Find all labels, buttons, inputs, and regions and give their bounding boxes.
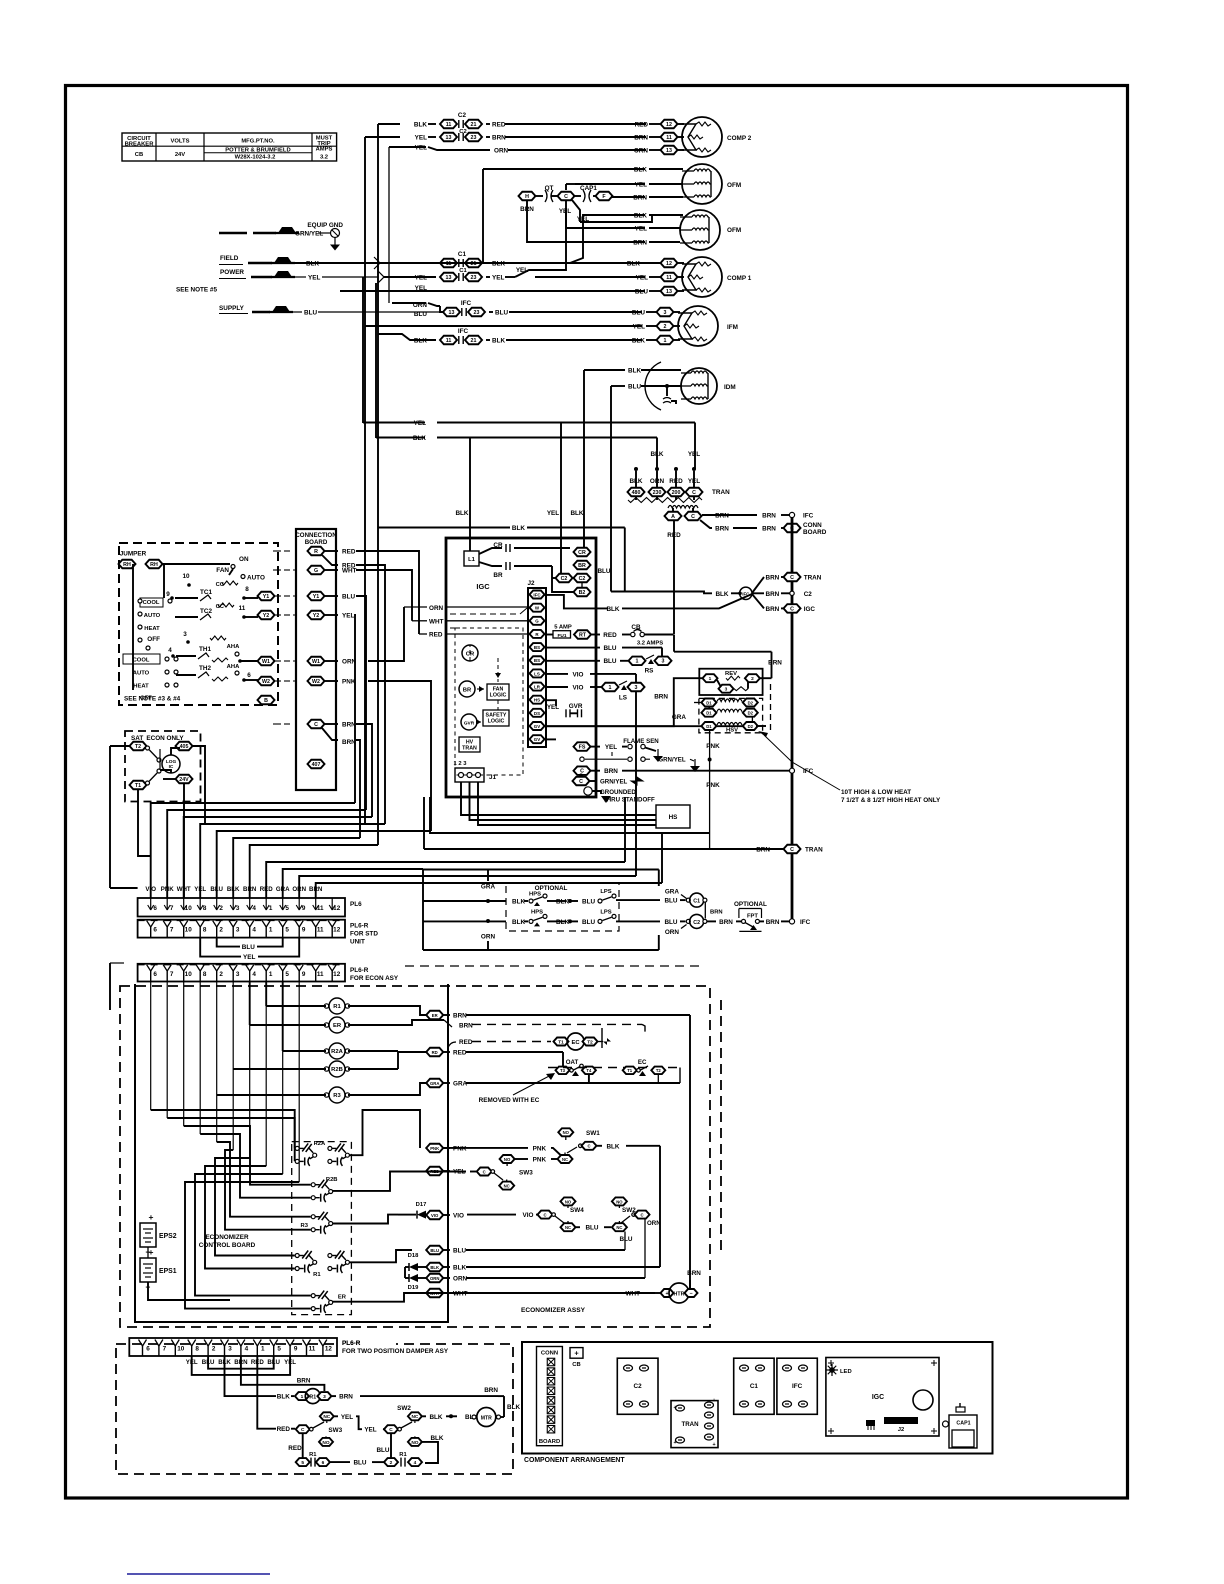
svg-text:D17: D17 bbox=[416, 1202, 427, 1208]
svg-text:C1: C1 bbox=[458, 251, 467, 258]
svg-text:LPS: LPS bbox=[600, 889, 611, 895]
svg-text:4: 4 bbox=[252, 905, 256, 912]
svg-text:+: + bbox=[712, 1398, 715, 1404]
svg-text:ER: ER bbox=[333, 1023, 342, 1029]
svg-text:RED: RED bbox=[277, 1426, 291, 1433]
svg-text:POTTER & BRUMFIELD: POTTER & BRUMFIELD bbox=[225, 148, 290, 154]
svg-text:LS: LS bbox=[534, 671, 540, 676]
svg-text:BRN: BRN bbox=[633, 240, 647, 247]
svg-text:PL6-R: PL6-R bbox=[350, 923, 369, 930]
svg-text:11: 11 bbox=[666, 135, 672, 141]
svg-text:R2B: R2B bbox=[331, 1067, 343, 1073]
svg-text:1 2 3: 1 2 3 bbox=[454, 761, 468, 767]
svg-text:6: 6 bbox=[146, 1346, 150, 1353]
svg-text:2: 2 bbox=[219, 927, 223, 934]
svg-text:1: 1 bbox=[261, 1346, 265, 1353]
svg-text:BLU: BLU bbox=[304, 310, 317, 317]
svg-text:BS: BS bbox=[534, 658, 540, 663]
svg-text:BRN: BRN bbox=[687, 1270, 701, 1277]
svg-text:8: 8 bbox=[203, 971, 207, 978]
svg-text:D2: D2 bbox=[748, 700, 754, 705]
svg-text:PL6-R: PL6-R bbox=[342, 1340, 361, 1347]
svg-text:PNK: PNK bbox=[342, 679, 356, 686]
svg-text:D1: D1 bbox=[706, 700, 712, 705]
svg-text:NC: NC bbox=[323, 1414, 330, 1420]
svg-text:C: C bbox=[640, 1213, 643, 1218]
svg-text:AUTO: AUTO bbox=[133, 671, 150, 677]
svg-text:ER: ER bbox=[338, 1295, 347, 1301]
svg-text:BLK: BLK bbox=[414, 122, 427, 129]
svg-text:VOLTS: VOLTS bbox=[171, 139, 190, 145]
svg-text:SW2: SW2 bbox=[397, 1405, 411, 1412]
svg-text:HEAT: HEAT bbox=[133, 684, 149, 690]
svg-text:OFM: OFM bbox=[727, 227, 741, 234]
svg-text:NC: NC bbox=[616, 1225, 622, 1230]
svg-text:GRN/YEL: GRN/YEL bbox=[295, 231, 323, 238]
svg-text:13: 13 bbox=[666, 289, 672, 295]
svg-text:CONNECTION: CONNECTION bbox=[295, 532, 337, 539]
svg-text:C: C bbox=[301, 1427, 305, 1433]
svg-text:23: 23 bbox=[471, 275, 477, 281]
svg-text:ORN: ORN bbox=[292, 886, 306, 893]
svg-text:C: C bbox=[587, 1144, 590, 1149]
svg-text:R1: R1 bbox=[399, 1452, 407, 1458]
svg-text:D2: D2 bbox=[748, 711, 754, 716]
svg-text:CC: CC bbox=[216, 582, 225, 588]
svg-text:BLU: BLU bbox=[597, 568, 610, 575]
svg-text:GVR: GVR bbox=[464, 721, 475, 727]
svg-text:C2: C2 bbox=[634, 1383, 643, 1390]
svg-text:RED: RED bbox=[459, 1039, 473, 1046]
svg-text:NO: NO bbox=[411, 1440, 418, 1446]
svg-text:FIELD: FIELD bbox=[220, 255, 239, 262]
svg-text:T2: T2 bbox=[656, 1068, 662, 1073]
svg-text:7: 7 bbox=[170, 927, 174, 934]
svg-text:CR: CR bbox=[578, 550, 586, 556]
svg-text:SEE NOTE #3 & #4: SEE NOTE #3 & #4 bbox=[124, 696, 181, 703]
svg-text:CB: CB bbox=[572, 1362, 580, 1368]
svg-text:FLAME SEN: FLAME SEN bbox=[623, 738, 659, 745]
svg-text:IFC: IFC bbox=[533, 592, 541, 597]
svg-text:BLU: BLU bbox=[635, 289, 648, 296]
svg-text:REMOVED WITH EC: REMOVED WITH EC bbox=[479, 1097, 540, 1104]
svg-text:GRA: GRA bbox=[665, 889, 680, 896]
svg-text:GV: GV bbox=[534, 737, 540, 742]
svg-text:C2: C2 bbox=[804, 591, 813, 598]
svg-text:CONTROL BOARD: CONTROL BOARD bbox=[199, 1242, 256, 1249]
svg-text:YEL: YEL bbox=[364, 1427, 376, 1434]
svg-text:NO: NO bbox=[504, 1157, 511, 1162]
svg-text:BLK: BLK bbox=[715, 591, 728, 598]
svg-text:2: 2 bbox=[219, 971, 223, 978]
svg-text:PNK: PNK bbox=[430, 1146, 439, 1151]
svg-text:HEAT: HEAT bbox=[144, 626, 160, 632]
svg-text:OAT: OAT bbox=[566, 1059, 579, 1066]
svg-text:BLK: BLK bbox=[492, 261, 505, 268]
svg-text:G: G bbox=[314, 568, 318, 574]
svg-text:12: 12 bbox=[325, 1346, 333, 1353]
svg-text:BLU: BLU bbox=[582, 919, 595, 926]
svg-text:6: 6 bbox=[322, 1460, 325, 1466]
svg-text:+: + bbox=[149, 1212, 154, 1222]
svg-text:BLK: BLK bbox=[556, 919, 569, 926]
svg-text:RED: RED bbox=[453, 1050, 467, 1057]
svg-text:POWER: POWER bbox=[220, 269, 244, 276]
svg-text:RD: RD bbox=[432, 1050, 438, 1055]
svg-text:W1: W1 bbox=[312, 659, 320, 665]
svg-text:YEL: YEL bbox=[341, 1414, 353, 1421]
svg-text:4: 4 bbox=[168, 647, 172, 654]
svg-text:YEL: YEL bbox=[194, 886, 206, 893]
svg-text:ORN: ORN bbox=[453, 1276, 468, 1283]
svg-text:9: 9 bbox=[302, 905, 306, 912]
svg-text:NO: NO bbox=[563, 1130, 570, 1135]
svg-text:2: 2 bbox=[751, 676, 754, 682]
svg-text:C: C bbox=[564, 194, 568, 200]
svg-text:21: 21 bbox=[471, 338, 477, 344]
svg-text:5 AMP: 5 AMP bbox=[554, 625, 572, 631]
svg-text:IFC: IFC bbox=[800, 919, 811, 926]
svg-text:BRN: BRN bbox=[766, 606, 780, 613]
svg-text:2: 2 bbox=[212, 1346, 216, 1353]
svg-text:BRN: BRN bbox=[715, 526, 729, 533]
svg-text:GV: GV bbox=[534, 724, 540, 729]
svg-text:BLK: BLK bbox=[492, 338, 505, 345]
svg-text:FOR ECON ASY: FOR ECON ASY bbox=[350, 975, 399, 982]
svg-text:YEL: YEL bbox=[547, 704, 559, 711]
svg-text:YEL: YEL bbox=[635, 226, 647, 233]
svg-text:B2: B2 bbox=[579, 590, 586, 596]
svg-text:BLU: BLU bbox=[628, 384, 641, 391]
svg-text:BLK: BLK bbox=[634, 167, 647, 174]
svg-text:BLK: BLK bbox=[628, 368, 641, 375]
svg-text:PNK: PNK bbox=[706, 782, 720, 789]
svg-text:BRN: BRN bbox=[756, 847, 770, 854]
svg-text:IGC: IGC bbox=[476, 582, 490, 591]
svg-text:T4: T4 bbox=[586, 1068, 592, 1073]
svg-text:R1: R1 bbox=[333, 1004, 341, 1010]
svg-text:ER: ER bbox=[432, 1013, 438, 1018]
svg-text:T2: T2 bbox=[135, 744, 141, 750]
svg-text:BLK: BLK bbox=[453, 1265, 466, 1272]
svg-text:10: 10 bbox=[185, 927, 193, 934]
svg-text:IGC: IGC bbox=[872, 1394, 884, 1401]
svg-text:BLK: BLK bbox=[650, 451, 663, 458]
svg-text:NO: NO bbox=[322, 1440, 329, 1446]
svg-text:OFM: OFM bbox=[727, 182, 741, 189]
svg-text:3: 3 bbox=[183, 631, 187, 638]
svg-text:IFC: IFC bbox=[461, 300, 472, 307]
svg-text:TH1: TH1 bbox=[199, 646, 211, 653]
svg-text:BLK: BLK bbox=[413, 435, 426, 442]
svg-text:VIO: VIO bbox=[431, 1213, 439, 1218]
svg-text:ORN: ORN bbox=[647, 1220, 661, 1227]
svg-text:BLK: BLK bbox=[634, 213, 647, 220]
svg-text:W28X-1024-3.2: W28X-1024-3.2 bbox=[235, 155, 277, 161]
svg-text:GRA: GRA bbox=[453, 1081, 468, 1088]
svg-text:D1: D1 bbox=[706, 724, 712, 729]
svg-text:YEL: YEL bbox=[342, 613, 354, 620]
svg-text:BRN: BRN bbox=[492, 135, 506, 142]
svg-text:5: 5 bbox=[285, 905, 289, 912]
svg-text:WHT: WHT bbox=[626, 1291, 641, 1298]
svg-text:VIO: VIO bbox=[573, 684, 584, 691]
svg-text:RED: RED bbox=[492, 122, 506, 129]
svg-text:MFG.PT.NO.: MFG.PT.NO. bbox=[241, 139, 275, 145]
svg-text:10: 10 bbox=[177, 1346, 185, 1353]
svg-text:BRN: BRN bbox=[762, 526, 776, 533]
svg-text:BREAKER: BREAKER bbox=[125, 142, 155, 148]
svg-text:9: 9 bbox=[294, 1346, 298, 1353]
svg-text:C2: C2 bbox=[458, 112, 467, 119]
svg-text:ORN: ORN bbox=[481, 934, 496, 941]
svg-text:TRAN: TRAN bbox=[804, 575, 822, 582]
svg-text:BLK: BLK bbox=[627, 261, 640, 268]
svg-text:BLK: BLK bbox=[430, 1435, 443, 1442]
svg-text:RH: RH bbox=[123, 562, 131, 568]
svg-text:13: 13 bbox=[446, 275, 452, 281]
svg-text:BRN: BRN bbox=[604, 768, 618, 775]
svg-text:IFC: IFC bbox=[792, 1383, 803, 1390]
svg-text:+: + bbox=[673, 1405, 676, 1411]
svg-text:BRN: BRN bbox=[719, 919, 733, 926]
svg-text:BOARD: BOARD bbox=[803, 529, 827, 536]
svg-text:−: − bbox=[689, 1291, 692, 1297]
svg-text:VIO: VIO bbox=[573, 671, 584, 678]
svg-text:ECONOMIZER ASSY: ECONOMIZER ASSY bbox=[521, 1307, 586, 1314]
svg-text:AMPS: AMPS bbox=[316, 147, 333, 153]
svg-text:+: + bbox=[574, 1349, 579, 1358]
svg-text:BRN: BRN bbox=[633, 195, 647, 202]
svg-text:YEL: YEL bbox=[635, 182, 647, 189]
svg-text:BRN: BRN bbox=[459, 1023, 473, 1030]
svg-text:6: 6 bbox=[153, 905, 157, 912]
svg-text:FOR STD: FOR STD bbox=[350, 931, 378, 938]
svg-text:HSV: HSV bbox=[726, 728, 738, 734]
svg-text:8: 8 bbox=[195, 1346, 199, 1353]
svg-text:BLK: BLK bbox=[512, 899, 525, 906]
svg-text:FAN: FAN bbox=[216, 567, 229, 574]
svg-text:BS: BS bbox=[534, 645, 540, 650]
svg-text:D18: D18 bbox=[408, 1253, 419, 1259]
svg-text:1: 1 bbox=[269, 971, 273, 978]
svg-text:23: 23 bbox=[471, 135, 477, 141]
svg-text:GROUNDED: GROUNDED bbox=[600, 789, 636, 796]
svg-text:ORN: ORN bbox=[665, 929, 680, 936]
svg-text:BLU: BLU bbox=[353, 1460, 366, 1467]
svg-text:4: 4 bbox=[245, 1346, 249, 1353]
svg-text:9: 9 bbox=[166, 591, 170, 598]
svg-text:BLU: BLU bbox=[603, 645, 616, 652]
svg-text:PNK: PNK bbox=[533, 1145, 547, 1152]
svg-text:SEE NOTE #5: SEE NOTE #5 bbox=[176, 287, 217, 294]
svg-text:RED: RED bbox=[603, 632, 617, 639]
svg-text:BRN: BRN bbox=[339, 1394, 353, 1401]
svg-text:11: 11 bbox=[446, 122, 452, 128]
svg-text:BRN: BRN bbox=[309, 886, 323, 893]
svg-text:AUTO: AUTO bbox=[144, 613, 161, 619]
svg-text:COMP 1: COMP 1 bbox=[727, 275, 752, 282]
svg-text:J1: J1 bbox=[489, 774, 497, 781]
svg-text:ECON ONLY: ECON ONLY bbox=[146, 735, 184, 742]
svg-text:D1: D1 bbox=[706, 711, 712, 716]
svg-text:ORN: ORN bbox=[429, 605, 444, 612]
svg-text:SW1: SW1 bbox=[586, 1130, 600, 1137]
svg-text:YEL: YEL bbox=[688, 451, 700, 458]
svg-text:ECONOMIZER: ECONOMIZER bbox=[205, 1234, 249, 1241]
svg-text:TRAN: TRAN bbox=[681, 1421, 699, 1428]
svg-text:10T HIGH & LOW HEAT: 10T HIGH & LOW HEAT bbox=[841, 789, 911, 796]
svg-text:Y1: Y1 bbox=[313, 594, 320, 600]
svg-text:11: 11 bbox=[666, 275, 672, 281]
svg-text:C2: C2 bbox=[693, 920, 700, 926]
svg-text:BLK: BLK bbox=[227, 886, 240, 893]
svg-text:W2: W2 bbox=[262, 679, 270, 685]
svg-text:R3: R3 bbox=[333, 1093, 341, 1099]
svg-text:YEL: YEL bbox=[605, 744, 617, 751]
svg-text:BLU: BLU bbox=[495, 310, 508, 317]
svg-text:12: 12 bbox=[666, 122, 672, 128]
svg-text:9: 9 bbox=[302, 971, 306, 978]
svg-text:BRN: BRN bbox=[766, 575, 780, 582]
svg-text:12: 12 bbox=[333, 927, 341, 934]
svg-text:5: 5 bbox=[285, 927, 289, 934]
svg-text:Y2: Y2 bbox=[263, 613, 270, 619]
svg-text:IFC: IFC bbox=[458, 328, 469, 335]
svg-text:ORN: ORN bbox=[430, 1276, 439, 1281]
svg-text:BRN: BRN bbox=[766, 919, 780, 926]
svg-text:BR: BR bbox=[463, 688, 472, 694]
svg-text:BRN: BRN bbox=[297, 1378, 311, 1385]
svg-text:1: 1 bbox=[709, 676, 712, 682]
svg-text:COOL: COOL bbox=[143, 600, 160, 606]
svg-text:YEL: YEL bbox=[492, 275, 504, 282]
svg-text:8: 8 bbox=[245, 586, 249, 593]
svg-text:BLK: BLK bbox=[570, 510, 583, 517]
svg-text:BLU: BLU bbox=[242, 944, 255, 951]
svg-text:C: C bbox=[314, 722, 318, 728]
svg-text:BLK: BLK bbox=[556, 899, 569, 906]
svg-text:GRN/YEL: GRN/YEL bbox=[600, 779, 628, 786]
svg-text:H: H bbox=[525, 194, 529, 200]
svg-text:FS: FS bbox=[579, 745, 586, 751]
svg-text:EPS1: EPS1 bbox=[159, 1268, 177, 1275]
svg-text:IFC: IFC bbox=[803, 513, 814, 520]
svg-text:LOGIC: LOGIC bbox=[488, 719, 505, 725]
svg-text:C1: C1 bbox=[750, 1383, 759, 1390]
svg-text:2: 2 bbox=[219, 905, 223, 912]
svg-text:BLU: BLU bbox=[585, 1225, 598, 1232]
svg-text:VIO: VIO bbox=[523, 1212, 534, 1219]
svg-text:LED: LED bbox=[840, 1369, 852, 1375]
svg-text:HPS: HPS bbox=[531, 909, 543, 915]
svg-text:TRAN: TRAN bbox=[805, 847, 823, 854]
svg-text:WHT: WHT bbox=[429, 619, 444, 626]
svg-text:SW3: SW3 bbox=[328, 1427, 342, 1434]
svg-text:BLU: BLU bbox=[430, 1248, 439, 1253]
svg-text:5: 5 bbox=[285, 971, 289, 978]
svg-text:7: 7 bbox=[170, 905, 174, 912]
svg-text:J2: J2 bbox=[527, 580, 535, 587]
svg-text:RED: RED bbox=[342, 549, 356, 556]
svg-text:8: 8 bbox=[203, 927, 207, 934]
svg-text:T2: T2 bbox=[587, 1039, 593, 1045]
svg-text:BRN: BRN bbox=[715, 513, 729, 520]
svg-text:BLU: BLU bbox=[210, 886, 223, 893]
svg-text:11: 11 bbox=[317, 971, 324, 978]
svg-text:C: C bbox=[483, 1169, 486, 1174]
svg-text:200: 200 bbox=[672, 490, 681, 496]
svg-text:CONN: CONN bbox=[803, 522, 822, 529]
svg-text:A: A bbox=[671, 514, 675, 520]
svg-text:R2B: R2B bbox=[326, 1177, 338, 1183]
svg-text:SUPPLY: SUPPLY bbox=[219, 305, 245, 312]
svg-text:BLK: BLK bbox=[277, 1394, 290, 1401]
svg-text:GRA: GRA bbox=[430, 1081, 439, 1086]
svg-text:T1: T1 bbox=[135, 783, 141, 789]
svg-text:4: 4 bbox=[252, 971, 256, 978]
svg-text:OPTIONAL: OPTIONAL bbox=[734, 901, 767, 908]
svg-text:3: 3 bbox=[664, 310, 667, 316]
svg-text:GVR: GVR bbox=[569, 703, 583, 710]
svg-text:BLU: BLU bbox=[632, 310, 645, 317]
svg-text:NC: NC bbox=[411, 1414, 418, 1420]
svg-text:3: 3 bbox=[725, 687, 728, 693]
svg-text:BLU: BLU bbox=[619, 1236, 632, 1243]
svg-text:W1: W1 bbox=[262, 659, 270, 665]
svg-text:23: 23 bbox=[474, 310, 480, 316]
svg-text:C: C bbox=[692, 490, 696, 496]
svg-text:GRA: GRA bbox=[672, 714, 687, 721]
svg-text:BLU: BLU bbox=[414, 311, 427, 318]
svg-text:FPT: FPT bbox=[747, 914, 758, 920]
svg-text:TC1: TC1 bbox=[200, 589, 212, 596]
svg-text:BRN: BRN bbox=[634, 135, 648, 142]
svg-text:YEL: YEL bbox=[415, 135, 427, 142]
svg-text:LPS: LPS bbox=[600, 909, 611, 915]
svg-text:G: G bbox=[535, 619, 539, 624]
svg-text:BLK: BLK bbox=[429, 1414, 442, 1421]
svg-text:T1: T1 bbox=[558, 1039, 564, 1045]
svg-text:8: 8 bbox=[203, 905, 207, 912]
svg-text:PNK: PNK bbox=[161, 886, 175, 893]
svg-text:NO: NO bbox=[616, 1199, 623, 1204]
svg-text:R: R bbox=[314, 549, 318, 555]
svg-text:VIO: VIO bbox=[145, 886, 156, 893]
svg-text:BLK: BLK bbox=[414, 338, 427, 345]
svg-text:RED: RED bbox=[260, 886, 274, 893]
svg-text:11: 11 bbox=[309, 1346, 316, 1353]
svg-text:480: 480 bbox=[632, 490, 641, 496]
svg-text:MTR: MTR bbox=[481, 1416, 492, 1422]
svg-text:+: + bbox=[665, 1291, 668, 1297]
svg-text:D2: D2 bbox=[748, 724, 754, 729]
svg-text:EC: EC bbox=[572, 1040, 581, 1046]
svg-text:BRN: BRN bbox=[762, 513, 776, 520]
svg-text:11: 11 bbox=[317, 927, 324, 934]
svg-text:5: 5 bbox=[301, 1460, 304, 1466]
svg-text:R2A: R2A bbox=[331, 1049, 343, 1055]
svg-text:6: 6 bbox=[153, 971, 157, 978]
svg-text:YEL: YEL bbox=[308, 275, 320, 282]
svg-text:BLU: BLU bbox=[453, 1248, 466, 1255]
svg-text:J2: J2 bbox=[898, 1427, 905, 1433]
svg-text:R3: R3 bbox=[301, 1223, 309, 1229]
svg-text:C: C bbox=[790, 575, 794, 581]
svg-text:YEL: YEL bbox=[636, 275, 648, 282]
svg-text:BOARD: BOARD bbox=[305, 539, 328, 546]
svg-text:ON: ON bbox=[239, 556, 249, 563]
